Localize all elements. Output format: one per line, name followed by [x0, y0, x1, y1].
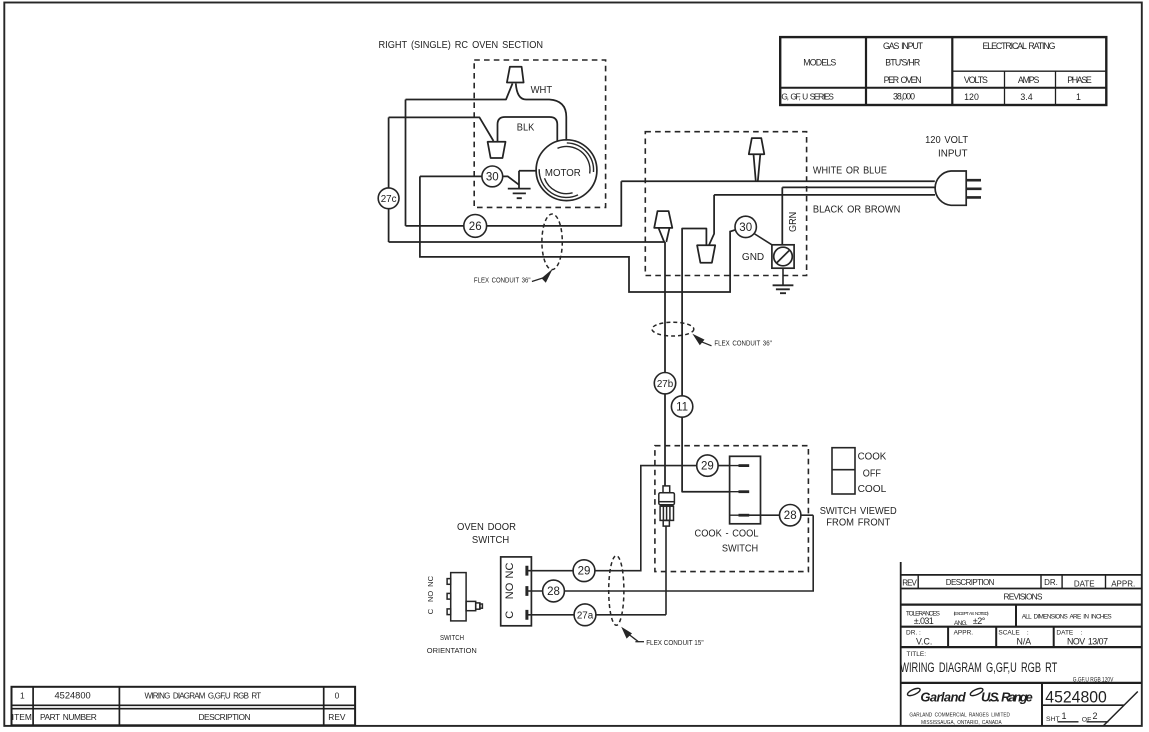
- svg-text:ANG.: ANG.: [954, 620, 968, 627]
- svg-text:ORIENTATION: ORIENTATION: [427, 648, 477, 655]
- svg-text:FLEX CONDUIT 15": FLEX CONDUIT 15": [646, 640, 704, 647]
- part number underline: [1042, 704, 1124, 706]
- switch S2 rect: [730, 456, 761, 524]
- rating table amps/phase divider: [1055, 71, 1057, 105]
- node 27c: [378, 188, 399, 209]
- arrow A3: [621, 627, 644, 642]
- svg-text:±2°: ±2°: [973, 616, 986, 626]
- switch S2 contact 3: [730, 514, 749, 516]
- arrow A2: [692, 334, 711, 346]
- svg-text:FLEX CONDUIT 36": FLEX CONDUIT 36": [714, 338, 772, 347]
- svg-text:1: 1: [20, 690, 25, 700]
- wire 30b to screw: [754, 234, 772, 245]
- wire BLK left vertical through 27c: [388, 117, 390, 242]
- svg-text:N/A: N/A: [1017, 637, 1032, 647]
- svg-text:28: 28: [547, 586, 560, 598]
- label NC NO C orientation rotated: [426, 575, 435, 614]
- svg-text:WIRING DIAGRAM G,GF,U RGB RT: WIRING DIAGRAM G,GF,U RGB RT: [900, 660, 1057, 675]
- svg-text:1: 1: [1076, 92, 1081, 102]
- wire bridge WN4 to 11 drop: [682, 229, 730, 492]
- wire WN5 stem: [659, 228, 670, 242]
- wire 27c horizontal: [389, 241, 665, 243]
- ground G2 bars: [773, 285, 794, 293]
- wire 27 vertical to connector: [664, 242, 666, 486]
- svg-text:29: 29: [578, 566, 591, 578]
- svg-text:SWITCH: SWITCH: [722, 543, 758, 554]
- svg-text:120 VOLT: 120 VOLT: [925, 135, 969, 146]
- svg-text:GARLAND COMMERCIAL RANGES LIMI: GARLAND COMMERCIAL RANGES LIMITED: [909, 713, 1010, 719]
- svg-text:26: 26: [469, 221, 482, 233]
- svg-text:TITLE:: TITLE:: [907, 651, 927, 658]
- switch S2 contact 2: [730, 491, 749, 493]
- corner diagonal: [1104, 692, 1138, 726]
- orientation plunger: [466, 601, 476, 610]
- svg-text:0: 0: [335, 690, 340, 700]
- inline connector J1: [659, 486, 675, 526]
- node 30a: [482, 166, 503, 187]
- svg-text:BLK: BLK: [517, 122, 535, 133]
- node 29a: [573, 560, 595, 582]
- node 11: [671, 396, 692, 417]
- tolerances divider: [1015, 605, 1017, 627]
- svg-text:FROM FRONT: FROM FRONT: [826, 517, 890, 528]
- arrow A1: [532, 269, 553, 283]
- rating table outer: [780, 37, 1106, 105]
- svg-text:INPUT: INPUT: [938, 148, 968, 159]
- svg-text:GRN: GRN: [788, 212, 799, 232]
- svg-text:NC: NC: [426, 575, 435, 586]
- node 29b: [697, 455, 718, 476]
- svg-text:COOK - COOL: COOK - COOL: [695, 529, 759, 540]
- switch S1 rect: [501, 557, 532, 626]
- switch S2 contact 1: [730, 465, 749, 467]
- logo cell divider: [1041, 683, 1043, 726]
- orientation body: [451, 573, 466, 621]
- dashed box cook-cool: [655, 446, 809, 572]
- svg-text:PER OVEN: PER OVEN: [884, 75, 922, 85]
- bottom table outer: [12, 687, 356, 726]
- svg-text:WHITE OR BLUE: WHITE OR BLUE: [813, 166, 887, 177]
- svg-text:3.4: 3.4: [1020, 92, 1032, 102]
- svg-text:SWITCH: SWITCH: [472, 535, 509, 546]
- svg-text:COOL: COOL: [858, 484, 887, 495]
- svg-text:4524800: 4524800: [1045, 687, 1107, 706]
- svg-text:MODELS: MODELS: [803, 58, 836, 68]
- svg-text:RIGHT (SINGLE) RC OVEN SECTION: RIGHT (SINGLE) RC OVEN SECTION: [379, 40, 544, 51]
- svg-text:DESCRIPTION: DESCRIPTION: [946, 578, 995, 587]
- wire 26 horizontal and riser: [406, 181, 622, 226]
- svg-text:REV: REV: [328, 712, 346, 722]
- orientation tabs: [447, 579, 451, 585]
- wire WN3 stem: [754, 154, 761, 181]
- node 26: [464, 215, 487, 238]
- svg-text:SWITCH: SWITCH: [440, 635, 464, 642]
- svg-text:C: C: [504, 611, 516, 619]
- svg-text:30: 30: [739, 222, 752, 234]
- switch S1 ticks: [525, 566, 528, 620]
- wire 30a to ground: [503, 176, 519, 184]
- label NC NO C rotated inside S1: [504, 563, 516, 619]
- svg-text:U.S. Range: U.S. Range: [981, 689, 1033, 704]
- wire WHT nut to motor curve: [516, 84, 567, 141]
- wire 28 run: [527, 515, 813, 591]
- svg-text:ELECTRICAL RATING: ELECTRICAL RATING: [983, 41, 1056, 51]
- wire WHITE main: [621, 180, 935, 182]
- svg-text:4524800: 4524800: [54, 690, 90, 700]
- garland swoosh 2: [969, 687, 984, 697]
- wire 30a horizontal left: [420, 175, 482, 177]
- svg-text:REV: REV: [902, 578, 917, 587]
- plug body: [935, 171, 966, 205]
- wire BLK horizontal into nut: [389, 117, 494, 141]
- svg-text:C: C: [426, 608, 435, 614]
- svg-text:29: 29: [701, 461, 714, 473]
- wire nut WN5 left: [654, 211, 672, 228]
- svg-text:SWITCH VIEWED: SWITCH VIEWED: [820, 506, 897, 517]
- wire WHT left vertical: [405, 100, 407, 226]
- svg-text:WIRING DIAGRAM G,GF,U RGB RT: WIRING DIAGRAM G,GF,U RGB RT: [145, 692, 262, 701]
- svg-text:DESCRIPTION: DESCRIPTION: [199, 712, 251, 722]
- dr row verticals: [947, 627, 949, 647]
- svg-text:38,000: 38,000: [893, 92, 915, 102]
- svg-text:NC: NC: [504, 563, 516, 579]
- title block left edge: [900, 562, 902, 726]
- svg-text:27b: 27b: [657, 379, 674, 390]
- svg-text:BLACK OR BROWN: BLACK OR BROWN: [813, 204, 901, 215]
- dashed box 120v input section: [645, 132, 806, 276]
- wire 30 long path to 30b: [420, 176, 736, 292]
- svg-text:1: 1: [1061, 711, 1066, 721]
- svg-text:DATE: DATE: [1074, 579, 1095, 588]
- plug prongs: [966, 180, 981, 197]
- svg-text:DR. :: DR. :: [906, 629, 921, 636]
- rating table volts/amps divider: [1004, 71, 1006, 105]
- wire WHT horizontal into nut: [406, 84, 513, 100]
- svg-text:DR.: DR.: [1044, 578, 1058, 587]
- ground G2 stem: [782, 268, 784, 285]
- svg-text:11: 11: [676, 402, 688, 414]
- node 27b: [654, 373, 675, 394]
- wire 29 run: [527, 466, 730, 571]
- svg-text:REVISIONS: REVISIONS: [1004, 591, 1043, 601]
- svg-text:VOLTS: VOLTS: [964, 75, 988, 85]
- node 30b: [735, 216, 756, 237]
- svg-text:COOK: COOK: [858, 451, 887, 462]
- wire nut WN3 white top: [749, 138, 765, 154]
- rating table electrical split: [952, 70, 1106, 72]
- wire nut WN4 inverted: [697, 245, 715, 262]
- wire ground stem / motor stub: [519, 171, 536, 188]
- garland logo: [920, 689, 1032, 704]
- svg-text:GAS INPUT: GAS INPUT: [883, 41, 924, 51]
- svg-text:ALL DIMENSIONS ARE IN INCHES: ALL DIMENSIONS ARE IN INCHES: [1022, 613, 1112, 620]
- bottom table col lines: [32, 687, 34, 726]
- svg-text:GND: GND: [742, 252, 764, 263]
- dashed box oven section: [474, 60, 605, 207]
- wire GRN branch: [782, 187, 934, 244]
- svg-text:ITEM: ITEM: [12, 712, 32, 722]
- rating table col line 1: [865, 37, 867, 105]
- svg-text:DATE :: DATE :: [1056, 629, 1082, 636]
- svg-text:OVEN DOOR: OVEN DOOR: [457, 522, 516, 533]
- node 28a: [543, 580, 565, 602]
- svg-text:NO: NO: [504, 582, 516, 599]
- garland swoosh 1: [907, 687, 922, 697]
- svg-text:NOV 13/07: NOV 13/07: [1067, 637, 1108, 647]
- node 28b: [780, 505, 801, 526]
- svg-text:OFF: OFF: [863, 469, 881, 480]
- svg-text:27c: 27c: [381, 194, 397, 205]
- ground G1 bars: [508, 189, 531, 199]
- svg-text:Garland: Garland: [920, 689, 966, 704]
- svg-text:WHT: WHT: [531, 85, 553, 96]
- node 27a: [574, 604, 596, 626]
- wire BLK nut to motor curve: [498, 117, 558, 142]
- rev header verticals: [917, 575, 919, 589]
- svg-text:±.031: ±.031: [914, 616, 934, 626]
- legend rect: [832, 448, 855, 494]
- svg-text:PART NUMBER: PART NUMBER: [40, 712, 97, 722]
- svg-text:NO: NO: [426, 591, 435, 602]
- svg-text:120: 120: [964, 92, 979, 102]
- svg-text:FLEX CONDUIT 36": FLEX CONDUIT 36": [474, 276, 531, 285]
- wire BLACK main and drop: [709, 195, 935, 245]
- svg-text:30: 30: [486, 171, 499, 183]
- flex conduit ellipse E1: [542, 214, 562, 270]
- svg-text:MISSISSAUGA, ONTARIO, CANADA: MISSISSAUGA, ONTARIO, CANADA: [921, 720, 1002, 726]
- svg-text:V.C.: V.C.: [916, 637, 932, 647]
- wire 27a run: [527, 526, 666, 615]
- svg-text:27a: 27a: [577, 611, 594, 622]
- rating table data row line: [780, 87, 1106, 89]
- flex conduit ellipse E3: [609, 556, 624, 626]
- svg-text:28: 28: [784, 510, 797, 522]
- screw terminal GND: [754, 234, 794, 294]
- flex conduit ellipse E2: [652, 322, 694, 336]
- title block row lines: [901, 574, 1142, 576]
- svg-text:2: 2: [1092, 711, 1097, 721]
- switch orientation symbol: [447, 573, 482, 621]
- motor M1: [536, 140, 597, 201]
- svg-text:AMPS: AMPS: [1018, 75, 1040, 85]
- svg-text:PHASE: PHASE: [1067, 75, 1092, 85]
- svg-text:BTU'S/HR: BTU'S/HR: [885, 58, 920, 68]
- rating table col line 2: [951, 37, 953, 105]
- svg-text:APPR.: APPR.: [954, 629, 974, 636]
- svg-text:G,GF,U RGB 120V: G,GF,U RGB 120V: [1073, 676, 1114, 683]
- svg-text:SCALE :: SCALE :: [998, 629, 1029, 636]
- wire nut WN2 black inverted: [488, 142, 506, 158]
- svg-text:APPR.: APPR.: [1111, 579, 1135, 588]
- svg-text:MOTOR: MOTOR: [545, 167, 581, 179]
- bottom table double lines: [12, 704, 356, 706]
- svg-text:G, GF, U SERIES: G, GF, U SERIES: [781, 92, 834, 102]
- wire nut WN1 white: [507, 67, 524, 83]
